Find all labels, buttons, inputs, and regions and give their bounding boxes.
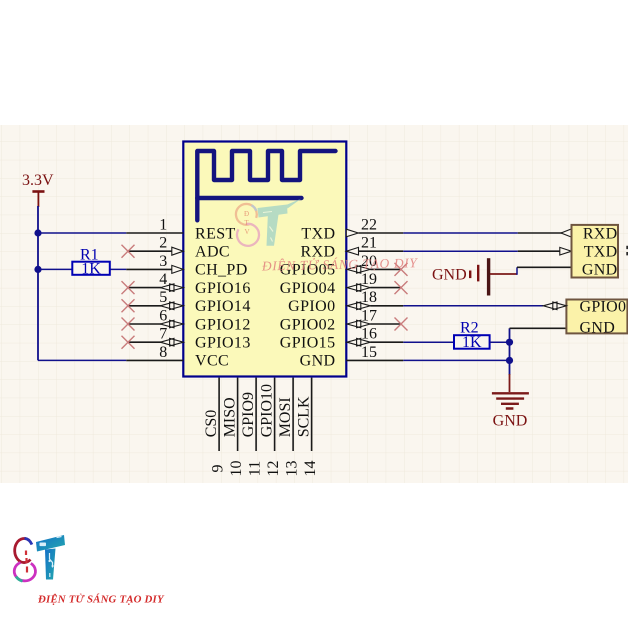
pin 17 stub wire bbox=[370, 323, 401, 325]
svg-text:VCC: VCC bbox=[195, 353, 229, 370]
header J2 pin names GPIO0/GND bbox=[580, 299, 627, 337]
watermark ST logo center bbox=[236, 199, 302, 246]
antenna meander graphic bbox=[197, 151, 335, 220]
no-connect X pin4 bbox=[122, 281, 135, 294]
bottom pin 12 wire bbox=[274, 378, 276, 451]
no-connect X pin19 bbox=[395, 281, 408, 294]
GND1 bar bbox=[477, 265, 479, 282]
svg-text:22: 22 bbox=[361, 216, 377, 233]
resistor R2 bbox=[454, 335, 490, 349]
svg-text:MISO: MISO bbox=[221, 397, 238, 437]
svg-text:REST: REST bbox=[195, 225, 236, 242]
svg-text:GND: GND bbox=[432, 267, 467, 284]
junction node pin1 bbox=[34, 229, 41, 236]
svg-text:GPIO02: GPIO02 bbox=[280, 316, 336, 333]
svg-text:21: 21 bbox=[361, 235, 377, 252]
GND1 tick bbox=[469, 271, 471, 279]
svg-text:1K: 1K bbox=[81, 260, 101, 277]
no-connect X pin7 bbox=[122, 336, 135, 349]
header J1 pin names RXD/TXD/GND bbox=[582, 225, 618, 278]
pin 15 wire bbox=[346, 359, 403, 361]
3.3V bus wire bbox=[37, 206, 39, 360]
pin 2 stub wire bbox=[128, 250, 172, 252]
junction node pin15/GND bbox=[506, 357, 513, 364]
U1 left pin numbers 1-8 bbox=[159, 216, 167, 360]
svg-text:SCLK: SCLK bbox=[295, 396, 312, 437]
3.3V stem bbox=[37, 192, 39, 208]
input arrow pin2 bbox=[172, 247, 184, 255]
bottom pin 10 wire bbox=[237, 378, 239, 451]
schematic sheet background bbox=[0, 125, 628, 483]
svg-text:1K: 1K bbox=[462, 334, 482, 351]
svg-text:GND: GND bbox=[493, 413, 528, 430]
bidir arrows pin18 bbox=[347, 302, 370, 310]
pin 16 wire to R2 bbox=[370, 341, 403, 343]
svg-text:GPIO04: GPIO04 bbox=[280, 280, 336, 297]
logo S rings bottom left bbox=[15, 539, 31, 563]
wire R2 to junction bbox=[490, 341, 510, 343]
chip U1 body bbox=[183, 142, 346, 377]
no-connect X pin2 bbox=[122, 245, 135, 258]
svg-text:9: 9 bbox=[210, 465, 227, 473]
GND1 tall bar bbox=[487, 258, 490, 295]
GND1 wire red bbox=[490, 273, 517, 275]
GND1 wire jog bbox=[516, 267, 518, 275]
pin 20 stub wire bbox=[370, 268, 401, 270]
no-connect X pin20 bbox=[395, 263, 408, 276]
svg-text:GND: GND bbox=[580, 319, 616, 336]
svg-text:GPIO0: GPIO0 bbox=[288, 298, 335, 315]
svg-text:GPIO15: GPIO15 bbox=[280, 335, 336, 352]
svg-text:Đ: Đ bbox=[244, 210, 249, 218]
svg-text:TXD: TXD bbox=[584, 244, 618, 261]
bidir arrows pin17 bbox=[347, 320, 370, 328]
input arrow pin3 bbox=[172, 265, 184, 273]
no-connect X pin5 bbox=[122, 299, 135, 312]
header J1 RXD/TXD/GND bbox=[572, 225, 619, 278]
svg-text:3.3V: 3.3V bbox=[22, 172, 54, 189]
svg-text:10: 10 bbox=[228, 461, 245, 477]
svg-text:3: 3 bbox=[159, 253, 167, 270]
svg-text:GPIO10: GPIO10 bbox=[258, 384, 275, 437]
no-connect X pin17 bbox=[395, 318, 408, 331]
bidir arrows pin7 bbox=[160, 338, 183, 346]
svg-text:GPIO16: GPIO16 bbox=[195, 280, 251, 297]
header RXD output arrow bbox=[561, 229, 572, 237]
bidir arrows pin4 bbox=[160, 284, 183, 292]
svg-text:GPIO9: GPIO9 bbox=[240, 392, 257, 437]
svg-text:15: 15 bbox=[361, 344, 377, 361]
pin 1 wire bbox=[38, 232, 126, 234]
svg-text:GND: GND bbox=[300, 353, 336, 370]
header TXD input arrow bbox=[560, 247, 572, 255]
header J1 right stub bbox=[626, 247, 628, 253]
bidir arrows pin5 bbox=[160, 302, 183, 310]
pin 8 wire from 3.3V bus bbox=[38, 359, 126, 361]
svg-text:ĐIỆN TỬ SÁNG TẠO DIY: ĐIỆN TỬ SÁNG TẠO DIY bbox=[37, 593, 165, 606]
header J2 bidir arrows bbox=[543, 302, 566, 310]
svg-text:1: 1 bbox=[159, 216, 167, 233]
junction node pin3 bbox=[34, 266, 41, 273]
bottom pin 14 wire bbox=[311, 378, 313, 451]
no-connect X pin6 bbox=[122, 318, 135, 331]
svg-text:GPIO14: GPIO14 bbox=[195, 298, 251, 315]
bidir arrows pin20 bbox=[347, 266, 370, 274]
svg-text:2: 2 bbox=[159, 235, 167, 252]
bottom pin 11 wire bbox=[255, 378, 257, 451]
svg-text:14: 14 bbox=[302, 461, 319, 477]
pin 7 stub wire bbox=[128, 341, 161, 343]
svg-text:GPIO12: GPIO12 bbox=[195, 316, 251, 333]
junction node R2/GND bbox=[506, 339, 513, 346]
svg-text:8: 8 bbox=[159, 344, 167, 361]
svg-text:GPIO0: GPIO0 bbox=[580, 299, 627, 316]
pin 19 stub wire bbox=[370, 287, 401, 289]
svg-text:TXD: TXD bbox=[301, 225, 335, 242]
input arrow pin21 bbox=[346, 247, 358, 255]
bidir arrows pin19 bbox=[347, 284, 370, 292]
pin 21 wire to TXD header bbox=[359, 250, 560, 252]
pin 22 wire to RXD header bbox=[359, 232, 572, 234]
pin 6 stub wire bbox=[128, 323, 161, 325]
svg-text:GPIO13: GPIO13 bbox=[195, 335, 251, 352]
bottom pin 9 wire bbox=[218, 378, 220, 451]
GND symbol stem bbox=[509, 374, 511, 392]
header J2 GPIO0/GND bbox=[566, 300, 627, 334]
svg-text:13: 13 bbox=[284, 461, 301, 477]
U1 right pin names TXD/RXD/GPIO05/GPIO04/GPIO0/GPIO02/GPIO15/GND bbox=[280, 225, 336, 369]
bidir arrows pin16 bbox=[347, 338, 370, 346]
svg-text:CH_PD: CH_PD bbox=[195, 262, 248, 279]
svg-text:T: T bbox=[244, 219, 249, 227]
bottom pin 13 wire bbox=[292, 378, 294, 451]
svg-text:V: V bbox=[244, 228, 249, 236]
pin 3 wire bbox=[38, 268, 126, 270]
svg-text:ADC: ADC bbox=[195, 244, 230, 261]
svg-text:RXD: RXD bbox=[583, 225, 618, 242]
svg-text:CS0: CS0 bbox=[203, 410, 220, 438]
GND symbol bars bbox=[492, 393, 529, 408]
3.3V power bar bbox=[32, 190, 44, 193]
svg-text:11: 11 bbox=[247, 461, 264, 476]
bidir arrows pin6 bbox=[160, 320, 183, 328]
logo tiny marks bbox=[26, 551, 27, 573]
pin 5 stub wire bbox=[128, 305, 161, 307]
svg-text:GND: GND bbox=[582, 262, 618, 279]
logo T bottom left bbox=[36, 535, 65, 552]
GND header row wire bbox=[510, 327, 567, 329]
svg-text:MOSI: MOSI bbox=[277, 397, 294, 437]
pin 18 wire to GPIO0 header bbox=[370, 305, 403, 307]
GND net vertical wire bbox=[509, 328, 511, 375]
U1 right pin numbers 22-15 bbox=[361, 216, 377, 360]
pin 4 stub wire bbox=[128, 287, 161, 289]
output arrow pin22 bbox=[346, 229, 358, 237]
svg-text:12: 12 bbox=[265, 461, 282, 477]
antenna feed bar bbox=[197, 196, 301, 200]
U1 left pin names REST/ADC/CH_PD/GPIO16/GPIO14/GPIO12/GPIO13/VCC bbox=[195, 225, 251, 369]
resistor R1 bbox=[72, 262, 110, 275]
